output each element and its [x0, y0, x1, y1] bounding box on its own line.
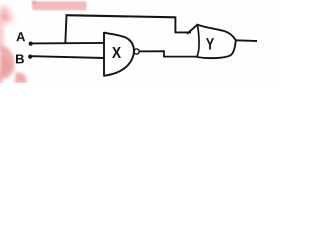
wire to OR gate top input	[175, 31, 192, 33]
wire top net down to OR input level	[174, 17, 176, 33]
or-gate Y back edge	[197, 26, 199, 57]
node B (input terminal B label)	[16, 54, 24, 63]
or-gate Y bottom edge	[197, 40, 236, 58]
wire B to NAND input	[32, 56, 104, 58]
wire top net horizontal	[66, 15, 176, 17]
pink highlighter left strip	[0, 18, 27, 84]
node A terminal dot	[29, 42, 33, 46]
wire X output to OR gate lower input (with jog down)	[139, 51, 198, 56]
nand-gate X body	[104, 33, 134, 76]
or-gate Y top edge with overshoot beak	[187, 25, 236, 41]
nand-gate X output bubble	[134, 49, 139, 54]
node A (input terminal A label)	[16, 32, 25, 41]
pink highlighter band top	[32, 1, 87, 10]
pink highlighter corner streak top-left	[0, 6, 14, 22]
wire Y output	[236, 39, 257, 42]
or-gate Y label	[206, 38, 214, 49]
wire branch from A wire up to top net	[65, 15, 66, 43]
node B terminal dot	[28, 55, 32, 59]
nand-gate X label	[112, 47, 121, 58]
wire A to NAND input	[32, 42, 104, 45]
